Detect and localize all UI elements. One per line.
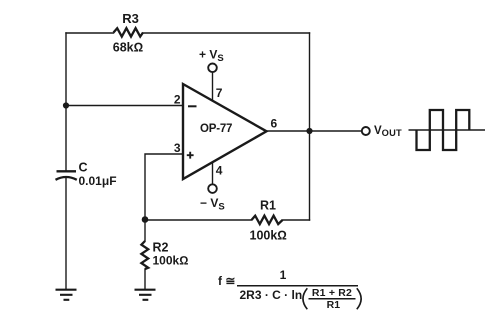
- svg-text:OP-77: OP-77: [200, 123, 232, 135]
- main fraction bar: [237, 285, 358, 287]
- node A inverting input junction: [63, 102, 69, 108]
- -Vs terminal: [200, 184, 225, 212]
- +Vs terminal: [199, 48, 224, 73]
- wire R2 top stub: [144, 220, 146, 242]
- plus sign pin3: [187, 152, 194, 159]
- big parens: [303, 288, 307, 309]
- wire output: [267, 130, 362, 132]
- node C output junction: [306, 128, 312, 134]
- capacitor C: [56, 161, 117, 189]
- svg-text:3: 3: [174, 141, 181, 155]
- svg-text:0.01μF: 0.01μF: [79, 174, 117, 188]
- wire pin3 L: [145, 154, 183, 220]
- node B noninverting input junction: [142, 216, 149, 223]
- svg-text:100kΩ: 100kΩ: [153, 254, 189, 268]
- svg-text:68kΩ: 68kΩ: [113, 41, 143, 55]
- svg-text:2: 2: [174, 93, 181, 107]
- ground (capacitor): [56, 290, 77, 300]
- inner fraction bar: [309, 298, 356, 300]
- minus sign pin2: [188, 105, 197, 107]
- svg-text:6: 6: [271, 117, 278, 131]
- svg-text:4: 4: [216, 164, 223, 178]
- svg-text:R1: R1: [327, 299, 341, 311]
- resistor R3: [113, 11, 143, 55]
- wire noninverting node to R1: [145, 219, 252, 221]
- wire pin4: [212, 162, 214, 184]
- svg-text:100kΩ: 100kΩ: [250, 229, 287, 243]
- square wave: [417, 110, 470, 150]
- svg-text:VOUT: VOUT: [374, 125, 402, 138]
- svg-text:R1 + R2: R1 + R2: [312, 287, 352, 299]
- formula f = 1/(2R3*C*ln((R1+R2)/R1)): [218, 268, 361, 311]
- wire left vertical upper: [65, 33, 67, 171]
- svg-text:R3: R3: [122, 11, 139, 26]
- output terminal circle: [362, 127, 370, 135]
- svg-text:1: 1: [280, 268, 287, 282]
- svg-text:C: C: [79, 161, 88, 175]
- svg-text:R2: R2: [153, 241, 169, 255]
- wire right vertical feedback: [309, 33, 311, 220]
- svg-text:R1: R1: [260, 199, 276, 213]
- wire R2 bottom stub: [144, 269, 146, 289]
- wire top left segment: [66, 32, 114, 34]
- svg-text:2R3 · C · ln: 2R3 · C · ln: [240, 288, 303, 302]
- wire pin2 horizontal: [66, 105, 183, 107]
- wire left vertical lower: [65, 179, 67, 290]
- resistor R1: [250, 199, 287, 243]
- wire top right segment: [143, 32, 310, 34]
- wire R1 to right vertical: [283, 219, 310, 221]
- resistor R2: [141, 241, 188, 270]
- svg-text:f ≅: f ≅: [218, 274, 235, 288]
- wire pin7: [212, 72, 214, 100]
- ground (R2): [135, 290, 156, 300]
- svg-text:7: 7: [216, 86, 223, 100]
- square wave axis: [409, 129, 486, 131]
- op-amp U1 OP-77: [174, 84, 278, 179]
